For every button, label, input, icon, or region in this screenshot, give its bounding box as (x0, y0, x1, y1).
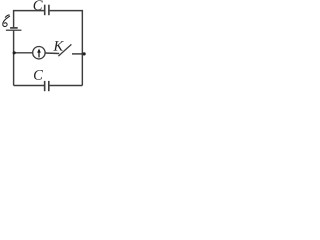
wire top-left segment (14, 11, 44, 28)
capacitor C2 (bottom) right plate (48, 81, 50, 91)
galvanometer arrow shaft (38, 52, 40, 58)
svg-text:C: C (33, 68, 43, 84)
wire galvanometer to switch (45, 52, 60, 55)
svg-text:C: C (33, 0, 43, 14)
battery ℰ long thin plate (6, 29, 22, 31)
battery ℰ short thick plate (10, 27, 18, 29)
svg-text:K: K (52, 39, 64, 55)
wire bottom-right segment (50, 85, 83, 87)
switch K blade (58, 44, 71, 56)
wire switch to right node (72, 53, 82, 55)
label EMF ℰ (3, 15, 10, 27)
galvanometer arrow head (37, 49, 41, 53)
galvanometer G circle (33, 47, 45, 59)
capacitor C2 (bottom) left plate (44, 81, 46, 91)
wire middle-left segment (14, 52, 33, 54)
wire bottom-left segment (14, 85, 44, 87)
wire left-bottom segment (13, 31, 15, 86)
capacitor C1 (top) right plate (48, 5, 50, 16)
capacitor C1 (top) left plate (44, 5, 46, 16)
node junction dot right (82, 52, 85, 55)
node junction dot left (13, 51, 16, 54)
wire top-right segment (50, 11, 83, 86)
